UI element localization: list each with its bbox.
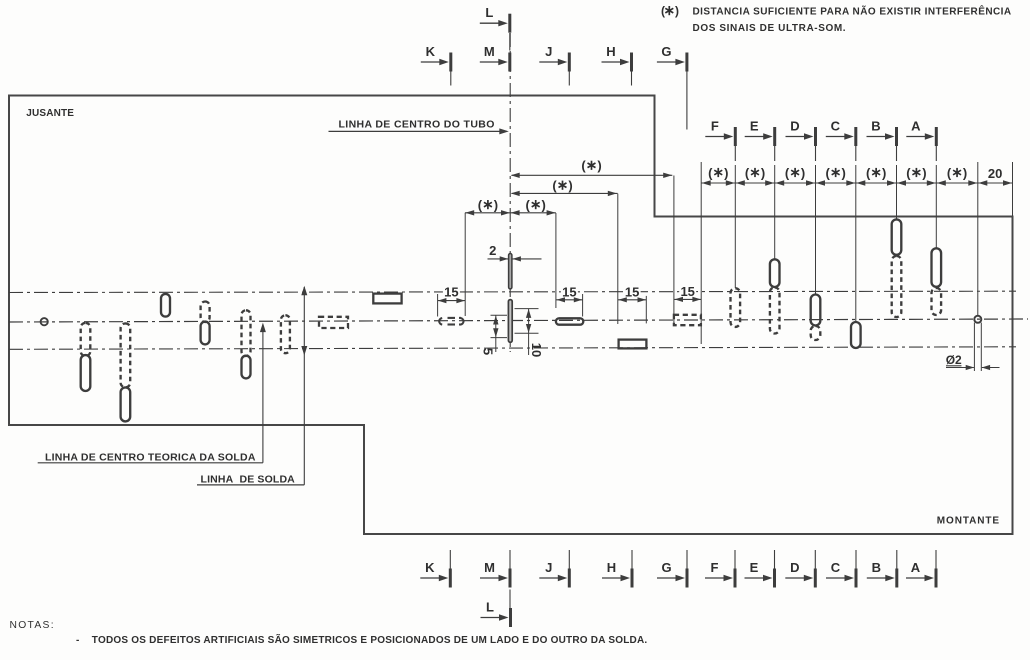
dimension 5 <box>491 314 508 316</box>
defect slot D (solid part) <box>811 295 821 326</box>
wire above bottom J tick <box>568 550 570 587</box>
small dashed slot on centerline (c = o look) <box>439 318 463 325</box>
wire above bottom G tick <box>686 550 688 587</box>
left reference hole <box>41 318 48 325</box>
wire below A tick <box>935 146 937 161</box>
scan position marker G (bottom) <box>657 560 689 588</box>
solid horizontal slot right of centerline <box>556 318 583 324</box>
extension line at hole center <box>977 162 979 316</box>
svg-text:15: 15 <box>680 284 694 299</box>
svg-text:E: E <box>750 560 759 575</box>
defect slot 6 (dashed) <box>281 315 290 353</box>
svg-text:J: J <box>545 560 552 575</box>
scan position marker E (bottom) <box>745 560 777 588</box>
extension line to dashed defect 2 <box>673 176 675 327</box>
dimension (*) from centerline to G-group <box>512 174 673 176</box>
svg-text:(: ( <box>526 197 531 212</box>
defect slot D (dashed part) <box>811 326 821 340</box>
svg-text:LINHA DE CENTRO TEORICA DA SOL: LINHA DE CENTRO TEORICA DA SOLDA <box>45 451 256 463</box>
defect slot A (dashed part) <box>932 288 942 315</box>
wire below B tick <box>896 146 898 161</box>
scan position marker C (top row) <box>826 119 858 147</box>
wire below K tick <box>450 72 452 86</box>
defect slot 3 (solid) <box>161 294 170 317</box>
label (*) <box>708 165 728 180</box>
chain dimension line (*) row <box>701 182 1012 184</box>
label (*) <box>825 165 845 180</box>
svg-text:): ) <box>494 197 498 212</box>
svg-text:(: ( <box>661 4 665 18</box>
svg-text:G: G <box>661 44 671 59</box>
scan position marker C (bottom) <box>826 560 858 588</box>
svg-text:): ) <box>963 165 967 180</box>
note (*) DISTANCIA SUFICIENTE ... <box>661 4 679 18</box>
svg-text:10: 10 <box>529 343 544 357</box>
extension line above border corner <box>1012 162 1014 216</box>
svg-text:C: C <box>831 560 841 575</box>
wire above bottom F tick <box>734 550 736 587</box>
scan position marker M (bottom) <box>480 560 512 588</box>
wire below F tick <box>734 146 736 161</box>
defect slot 4 (solid part) <box>201 322 210 345</box>
svg-text:B: B <box>871 119 880 134</box>
extension line to defect group 2 <box>617 194 619 324</box>
scan position marker E (top row) <box>745 119 777 147</box>
svg-text:DISTANCIA SUFICIENTE PARA NÃO: DISTANCIA SUFICIENTE PARA NÃO EXISTIR IN… <box>693 5 1012 18</box>
svg-text:LINHA DE SOLDA: LINHA DE SOLDA <box>201 474 296 486</box>
svg-text:J: J <box>545 44 552 59</box>
dashed rectangular defect 1 <box>319 317 348 328</box>
extension line under F <box>734 165 736 288</box>
wire below C tick <box>855 146 857 161</box>
right reference hole (diameter 2) <box>974 316 981 323</box>
svg-text:M: M <box>484 560 495 575</box>
svg-text:D: D <box>790 560 799 575</box>
defect slot 2 (solid part) <box>121 387 131 421</box>
extension line under C <box>855 165 857 322</box>
scan position marker K (bottom) <box>420 560 452 588</box>
defect slot 4 (dashed part) <box>201 302 210 323</box>
svg-text:DOS SINAIS DE ULTRA-SOM.: DOS SINAIS DE ULTRA-SOM. <box>693 23 847 34</box>
svg-text:H: H <box>607 560 616 575</box>
svg-text:M: M <box>484 44 495 59</box>
svg-text:20: 20 <box>988 166 1002 181</box>
wire above bottom C tick <box>855 550 857 587</box>
dimension 15 (dashed defect group) <box>674 298 701 300</box>
svg-text:(: ( <box>947 165 952 180</box>
solid rectangular defect 1 <box>373 294 401 304</box>
defect slot B (dashed part) <box>892 256 902 317</box>
svg-text:G: G <box>661 560 671 575</box>
plate outline border (stepped) <box>9 96 1013 535</box>
svg-text:L: L <box>485 5 493 20</box>
svg-text:): ) <box>542 197 546 212</box>
defect slot 5 (solid part) <box>242 356 251 379</box>
svg-text:A: A <box>911 560 921 575</box>
defect slot A (solid part) <box>932 248 942 286</box>
svg-text:(: ( <box>906 165 911 180</box>
extension line left of centerline <box>464 213 466 316</box>
svg-text:(: ( <box>745 165 750 180</box>
svg-text:K: K <box>425 560 435 575</box>
scan position marker K (top) <box>421 44 453 72</box>
wire above bottom E tick <box>774 550 776 587</box>
scan position marker M (top) <box>480 44 512 72</box>
wire above bottom K tick <box>449 550 451 587</box>
wire between bottom M and L ticks <box>509 590 511 628</box>
svg-text:A: A <box>911 119 921 134</box>
dimension (*) pair around centerline <box>465 212 556 214</box>
scan position marker J (top) <box>539 44 571 72</box>
wire between L and M ticks <box>509 33 511 51</box>
label (*) <box>745 165 765 180</box>
extension line under A <box>935 165 937 248</box>
scan position marker H (bottom) <box>602 560 634 588</box>
svg-text:): ) <box>841 165 845 180</box>
tube centerline (vertical dash-dot at M/L) <box>509 33 511 352</box>
defect slot 2 (dashed part) <box>121 323 131 387</box>
defect slot F (dashed) <box>731 288 741 327</box>
svg-text:15: 15 <box>444 285 458 300</box>
scan position marker H (top) <box>602 44 634 72</box>
svg-text:): ) <box>568 178 572 193</box>
svg-text:F: F <box>711 560 719 575</box>
svg-text:K: K <box>426 44 436 59</box>
defect slot C (solid) <box>851 322 861 348</box>
svg-text:JUSANTE: JUSANTE <box>26 108 74 119</box>
dimension 10 <box>515 308 539 310</box>
svg-text:(: ( <box>552 178 557 193</box>
svg-text:): ) <box>882 165 886 180</box>
svg-text:15: 15 <box>625 284 639 299</box>
scan position marker D (top row) <box>786 119 818 147</box>
svg-text:): ) <box>922 165 926 180</box>
dimension diameter 2 of reference hole <box>973 323 975 371</box>
svg-text:D: D <box>790 119 799 134</box>
svg-text:Ø2: Ø2 <box>946 353 962 367</box>
svg-text:2: 2 <box>489 243 496 258</box>
svg-text:): ) <box>724 165 728 180</box>
svg-text:MONTANTE: MONTANTE <box>937 515 1000 526</box>
svg-text:5: 5 <box>481 348 496 355</box>
svg-text:E: E <box>750 119 759 134</box>
defect slot 1 (dashed part) <box>81 323 91 356</box>
svg-text:F: F <box>711 119 719 134</box>
defect slot B (solid part) <box>892 219 902 254</box>
svg-text:(: ( <box>581 158 586 173</box>
svg-text:): ) <box>801 165 805 180</box>
wire above bottom B tick <box>896 550 898 587</box>
wire above bottom M tick <box>509 550 511 587</box>
scan position marker A (top row) <box>906 119 938 147</box>
label (*) <box>785 165 805 180</box>
svg-text:(: ( <box>825 165 830 180</box>
svg-text:B: B <box>872 560 881 575</box>
svg-text:C: C <box>831 119 841 134</box>
label (*) <box>906 165 926 180</box>
svg-text:(: ( <box>708 165 713 180</box>
lower weld-zone dash-dot line <box>9 347 1016 350</box>
label (*) <box>947 165 967 180</box>
svg-text:-: - <box>76 635 79 646</box>
svg-text:NOTAS:: NOTAS: <box>10 620 55 631</box>
defect slot E (dashed part) <box>770 288 780 334</box>
extension line under D <box>815 165 817 294</box>
scan position marker F (top row) <box>705 119 737 147</box>
svg-text:(: ( <box>478 197 483 212</box>
scan position marker B (top row) <box>867 119 899 147</box>
scan position marker L (top) <box>480 5 512 33</box>
central slot lower bar <box>508 300 512 343</box>
scan position marker D (bottom) <box>785 560 817 588</box>
wire below H tick <box>631 72 633 86</box>
extension line at F-group left end <box>700 162 702 344</box>
extension line under E <box>774 165 776 259</box>
defect slot E (solid part) <box>770 259 780 287</box>
scan position marker G (top) <box>657 44 689 72</box>
dimension 15 (left of centerline) <box>437 294 439 317</box>
svg-text:(: ( <box>866 165 871 180</box>
scan position marker B (bottom) <box>867 560 899 588</box>
wire below J tick <box>568 72 570 86</box>
scan position marker J (bottom) <box>539 560 571 588</box>
svg-text:L: L <box>486 600 494 615</box>
wire above bottom D tick <box>814 550 816 587</box>
dashed rectangular defect 2 <box>674 315 701 325</box>
wire above bottom H tick <box>631 550 633 587</box>
label (*) <box>866 165 886 180</box>
svg-text:TODOS OS DEFEITOS ARTIFICIAIS: TODOS OS DEFEITOS ARTIFICIAIS SÃO SIMETR… <box>92 633 648 646</box>
svg-text:LINHA DE CENTRO DO TUBO: LINHA DE CENTRO DO TUBO <box>339 119 495 131</box>
svg-text:): ) <box>597 158 601 173</box>
solid rectangular defect 2 <box>619 340 647 349</box>
svg-text:): ) <box>675 4 679 18</box>
dimension 15 (defect group 2) <box>645 296 647 324</box>
scan position marker F (bottom) <box>705 560 737 588</box>
dimension 15 (right of centerline) <box>582 294 584 317</box>
scan position marker L (bottom) <box>481 600 513 628</box>
wire below G tick <box>686 72 688 130</box>
wire below E tick <box>774 146 776 161</box>
central slot upper bar (2 wide) <box>509 254 512 289</box>
svg-text:15: 15 <box>562 284 576 299</box>
wire above bottom A tick <box>935 550 937 587</box>
weld centerline (horizontal dash-dot) <box>9 319 1028 322</box>
defect slot 5 (dashed part) <box>242 310 251 356</box>
svg-text:H: H <box>606 44 615 59</box>
upper weld-zone dash-dot line <box>9 291 1016 292</box>
svg-text:): ) <box>761 165 765 180</box>
dimension (*) from centerline to defect group 2 <box>512 192 618 194</box>
extension line under B <box>896 165 898 219</box>
wire below D tick <box>815 146 817 161</box>
scan position marker A (bottom) <box>906 560 938 588</box>
extension line right of centerline <box>555 213 557 308</box>
defect slot 1 (solid part) <box>81 355 91 391</box>
svg-text:(: ( <box>785 165 790 180</box>
